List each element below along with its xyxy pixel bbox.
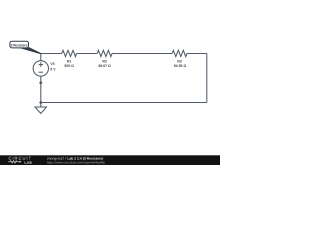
minus sign of V5 (39, 71, 43, 73)
wire node to source top (40, 54, 42, 61)
footer title line (47, 157, 66, 160)
wire top from node to R1 (41, 53, 62, 55)
svg-text:3 Resistors: 3 Resistors (11, 43, 28, 47)
annotation callout tail (17, 47, 41, 54)
voltage source V5 circle (33, 61, 48, 76)
wire source bottom to junction (40, 76, 42, 102)
resistor R1 (62, 50, 77, 56)
ground (35, 107, 47, 114)
wire bottom (41, 102, 207, 104)
svg-text:5 V: 5 V (50, 68, 56, 72)
footer url line (47, 161, 105, 164)
svg-text:500 Ω: 500 Ω (64, 64, 74, 68)
annotation box 3 Resistors (10, 41, 29, 48)
resistor R2 (97, 50, 112, 56)
svg-text:66.67 Ω: 66.67 Ω (98, 64, 111, 68)
svg-text:V5: V5 (50, 62, 54, 66)
footer bar (0, 155, 220, 165)
plus sign of V5 (39, 62, 43, 72)
svg-text:R3: R3 (177, 59, 182, 63)
junction dot at source minus lead (39, 81, 42, 84)
CircuitLab logo resistor zigzag (8, 161, 22, 163)
wire R2 to R3 (112, 53, 172, 55)
CircuitLab logo text CIRCUIT (9, 157, 31, 160)
wire junction to ground (40, 103, 42, 108)
junction dot bottom-left (39, 101, 42, 104)
svg-text:R2: R2 (102, 59, 107, 63)
svg-text:R1: R1 (67, 59, 72, 63)
footer title bold part (68, 157, 104, 160)
svg-text:54.55 Ω: 54.55 Ω (174, 64, 187, 68)
wire R3 to top-right corner (187, 53, 207, 55)
wire right side (206, 54, 208, 103)
resistor R3 (172, 50, 187, 56)
CircuitLab logo text LAB (25, 161, 32, 163)
wire R1 to R2 (77, 53, 98, 55)
